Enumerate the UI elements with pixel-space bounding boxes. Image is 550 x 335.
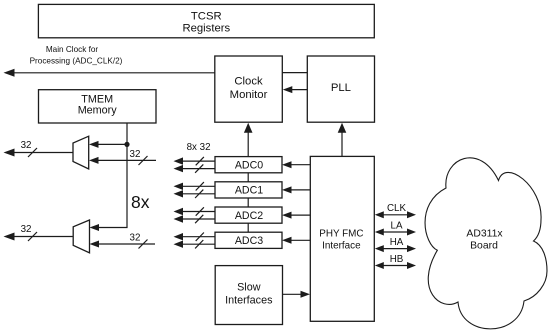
svg-text:ADC3: ADC3 — [235, 235, 263, 247]
cloud AD311x Board — [425, 158, 547, 329]
arrowheads HB right — [407, 262, 416, 269]
bus HB double arrow — [382, 265, 409, 267]
svg-text:ADC0: ADC0 — [235, 160, 263, 172]
slash ADC2 b — [195, 215, 203, 223]
wire ADC0 top to Clock Monitor bottom — [247, 132, 249, 157]
svg-text:PLL: PLL — [331, 82, 351, 94]
svg-text:8x: 8x — [131, 192, 150, 212]
arrowheads ADC2 bus b — [174, 215, 184, 222]
arrowheads CLK left — [375, 211, 384, 218]
svg-text:Board: Board — [470, 241, 498, 252]
wire PHY FMC to ADC0 — [291, 164, 310, 166]
wire main clock output (Clock Monitor left to far-left arrow) — [12, 72, 215, 74]
arrowhead lower mux output — [4, 233, 15, 241]
svg-text:Slow: Slow — [237, 281, 261, 293]
slash ADC0 b — [195, 164, 203, 172]
arrowhead PHY to ADC3 — [282, 237, 292, 244]
wire PHY FMC to ADC2 — [291, 214, 310, 216]
wire TMEM bottom down to junction — [126, 123, 128, 144]
slash upper mux input 2 — [139, 156, 148, 165]
svg-text:HA: HA — [390, 237, 404, 248]
arrowhead PHY to ADC1 — [282, 186, 292, 193]
bus ADC0 left line b — [182, 168, 215, 170]
bus ADC1 left line b — [182, 193, 215, 195]
arrowhead Slow to PHY — [301, 291, 311, 298]
wire junction down to lower mux corner — [99, 144, 128, 228]
svg-text:32: 32 — [130, 149, 141, 160]
wire lower mux input 2 (32 bus) — [99, 243, 156, 245]
box ADC2 — [215, 207, 282, 223]
arrowhead upper mux input 1 — [89, 141, 99, 148]
slash upper mux output — [28, 148, 37, 157]
wire ADC2-ADC3 connector — [247, 223, 249, 232]
slash lower mux output — [28, 232, 37, 241]
svg-text:Memory: Memory — [78, 104, 118, 116]
wire junction to upper mux input 1 — [98, 143, 127, 145]
wire PLL to Clock Monitor upper — [282, 72, 307, 74]
svg-text:Registers: Registers — [182, 23, 230, 35]
box ADC1 — [215, 182, 282, 198]
svg-text:CLK: CLK — [387, 203, 407, 214]
arrowheads ADC1 bus a — [174, 183, 184, 190]
wire PHY FMC to ADC1 — [291, 189, 310, 191]
svg-text:PHY FMC: PHY FMC — [319, 229, 363, 240]
arrowheads ADC1 bus b — [174, 190, 184, 197]
wire upper mux input 2 (32 bus) — [98, 159, 156, 161]
svg-text:LA: LA — [391, 220, 403, 231]
wire ADC0-ADC1 connector — [247, 173, 249, 182]
wire lower mux output (32 bus) — [13, 236, 73, 238]
svg-text:Monitor: Monitor — [230, 89, 268, 101]
bus HA double arrow — [382, 248, 409, 250]
bus ADC2 left line a — [182, 211, 215, 213]
slash ADC3 b — [195, 240, 203, 248]
box TMEM Memory — [39, 90, 157, 123]
arrowheads ADC0 bus b — [174, 165, 184, 172]
mux upper (trapezoid) — [73, 136, 89, 169]
svg-text:HB: HB — [390, 254, 404, 265]
svg-text:TCSR: TCSR — [191, 11, 222, 23]
slash ADC2 a — [196, 207, 204, 215]
svg-text:Interface: Interface — [322, 241, 361, 252]
arrowheads ADC0 bus a — [174, 157, 184, 164]
arrowheads LA left — [375, 229, 384, 236]
arrowhead upper mux output — [4, 149, 15, 157]
slash lower mux input 2 — [139, 240, 148, 249]
bus ADC3 left line b — [182, 243, 215, 245]
slash ADC0 a — [196, 157, 204, 165]
wire ADC1-ADC2 connector — [247, 198, 249, 207]
bus ADC3 left line a — [182, 236, 215, 238]
arrowhead into PLL bottom — [338, 123, 347, 133]
svg-text:ADC2: ADC2 — [235, 210, 263, 222]
arrowhead lower mux input 2 — [90, 241, 100, 248]
wire PHY FMC to ADC3 — [291, 239, 310, 241]
arrowheads HA right — [407, 245, 416, 252]
arrowheads ADC3 bus b — [174, 241, 184, 248]
bus CLK double arrow — [382, 214, 409, 216]
wire PHY FMC top to PLL bottom — [341, 132, 343, 157]
box ADC0 — [215, 157, 282, 173]
wire upper mux output (32 bus) — [13, 152, 73, 154]
box Clock Monitor — [215, 56, 282, 122]
junction dot — [124, 142, 129, 147]
arrowheads ADC2 bus a — [174, 208, 184, 215]
arrowhead PHY to ADC0 — [282, 161, 292, 168]
arrowheads ADC3 bus a — [174, 233, 184, 240]
slash ADC1 b — [195, 190, 203, 198]
wire PLL to Clock Monitor lower (arrow) — [291, 89, 307, 91]
arrowhead PHY to ADC2 — [282, 212, 292, 219]
arrowheads HA left — [375, 245, 384, 252]
wire Slow Interfaces to PHY FMC — [283, 293, 302, 295]
svg-text:Clock: Clock — [234, 76, 263, 88]
arrowheads CLK right — [407, 211, 416, 218]
svg-text:32: 32 — [130, 233, 141, 244]
box PHY FMC Interface — [310, 156, 374, 321]
slashes on buses — [28, 148, 204, 249]
box Slow Interfaces — [215, 266, 282, 325]
svg-text:8x 32: 8x 32 — [187, 142, 211, 153]
arrowheads HB left — [375, 262, 384, 269]
svg-text:32: 32 — [21, 224, 32, 235]
arrowhead into Clock Monitor bottom — [244, 123, 253, 133]
bus ADC0 left line a — [182, 160, 215, 162]
box PLL — [307, 56, 374, 122]
slash ADC1 a — [196, 182, 204, 190]
svg-text:ADC1: ADC1 — [235, 185, 263, 197]
bus ADC2 left line b — [182, 218, 215, 220]
svg-text:Interfaces: Interfaces — [225, 294, 273, 306]
bus ADC1 left line a — [182, 185, 215, 187]
arrowhead upper mux input 2 — [89, 157, 99, 164]
arrowhead PLL to Clock Monitor — [283, 86, 293, 93]
mux lower (trapezoid) — [73, 220, 89, 253]
box ADC3 — [215, 232, 282, 248]
arrowheads LA right — [407, 229, 416, 236]
box TCSR Registers — [38, 4, 374, 37]
svg-text:Processing (ADC_CLK/2): Processing (ADC_CLK/2) — [30, 57, 123, 66]
arrowhead lower mux input 1 — [90, 224, 100, 231]
slash ADC3 a — [196, 233, 204, 241]
svg-text:Main Clock for: Main Clock for — [46, 45, 99, 54]
arrowhead main clock left — [4, 69, 15, 77]
bus LA double arrow — [382, 231, 409, 233]
svg-text:AD311x: AD311x — [466, 229, 503, 240]
svg-text:32: 32 — [21, 140, 32, 151]
